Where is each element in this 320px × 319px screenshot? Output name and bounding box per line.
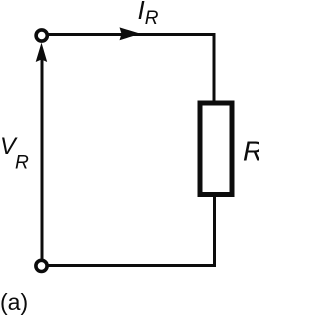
- svg-text:R: R: [243, 135, 259, 166]
- wire: top horizontal from terminal to top-right corner: [47, 33, 215, 36]
- current arrowhead I_R on top wire: [120, 27, 141, 40]
- wire: right vertical upper segment: [213, 33, 216, 103]
- svg-text:(a): (a): [0, 289, 28, 315]
- terminal node: top-left open circle: [36, 30, 47, 41]
- wire: left vertical voltage-arrow shaft: [41, 58, 44, 259]
- terminal node: bottom-left open circle: [36, 260, 47, 271]
- wire: right vertical lower segment: [213, 195, 216, 267]
- voltage arrowhead V_R pointing up: [36, 43, 48, 62]
- wire: bottom horizontal from terminal to bottom-right corner: [47, 264, 216, 267]
- resistor R body: [200, 103, 232, 195]
